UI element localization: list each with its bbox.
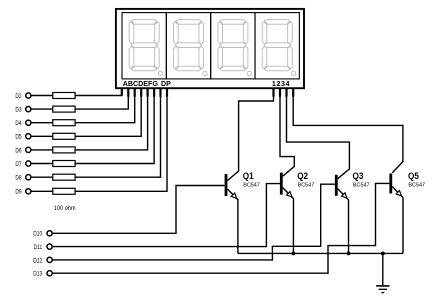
- terminal circle D4: [26, 120, 31, 125]
- svg-text:Q1: Q1: [243, 170, 254, 181]
- wire resistor R3 to display pin C: [75, 88, 135, 123]
- terminal circle D2: [26, 93, 31, 98]
- svg-text:ABCDEFG: ABCDEFG: [123, 79, 158, 88]
- svg-text:D4: D4: [15, 121, 22, 128]
- display label 1234: [272, 79, 291, 88]
- wire D8 to resistor R7: [31, 176, 53, 178]
- terminal circle D13: [47, 271, 52, 276]
- terminal label D3: [15, 107, 22, 114]
- resistor R4 (100 ohm): [53, 133, 75, 139]
- digit cell 1 border: [122, 13, 166, 79]
- svg-text:D7: D7: [15, 161, 21, 168]
- transistor Q5 base bar: [389, 174, 392, 194]
- digit cell 3 border: [211, 13, 255, 79]
- svg-text:D12: D12: [33, 258, 42, 265]
- digit 2 decimal point: [203, 71, 207, 75]
- svg-text:D2: D2: [15, 93, 21, 100]
- terminal circle D12: [47, 257, 52, 262]
- wire display pin 4 to Q5 collector: [293, 88, 403, 173]
- svg-text:D13: D13: [33, 271, 43, 278]
- svg-text:Q2: Q2: [297, 170, 308, 181]
- svg-text:BC547: BC547: [353, 182, 370, 188]
- display pin C: [134, 88, 136, 97]
- terminal circle D3: [26, 107, 31, 112]
- transistor Q1 label: [243, 170, 254, 181]
- svg-text:BC547: BC547: [298, 182, 315, 188]
- svg-text:1234: 1234: [272, 79, 291, 88]
- svg-text:D9: D9: [15, 189, 21, 196]
- terminal circle D10: [47, 231, 52, 236]
- wire D10 to Q1 base: [52, 186, 224, 234]
- display pin B: [127, 88, 129, 97]
- digit 4 seven-segment pattern: [262, 20, 292, 71]
- wire D11 to Q2 base: [52, 184, 280, 247]
- wire resistor R7 to display pin G: [75, 88, 160, 177]
- svg-text:D5: D5: [15, 134, 22, 141]
- terminal label D5: [15, 134, 22, 141]
- ground symbol: [376, 286, 389, 293]
- svg-text:D8: D8: [15, 175, 22, 182]
- terminal circle D6: [26, 147, 31, 152]
- resistor R3 (100 ohm): [53, 120, 75, 126]
- svg-text:D10: D10: [33, 231, 43, 238]
- digit 3 decimal point: [247, 71, 251, 75]
- terminal label D10: [33, 231, 43, 238]
- display pin 3: [285, 88, 287, 97]
- transistor Q1 value label: [243, 182, 260, 188]
- junction Q3 emitter on rail: [347, 252, 351, 256]
- wire resistor R5 to display pin E: [75, 88, 148, 150]
- wire resistor R1 to display pin A: [75, 88, 122, 95]
- wire D4 to resistor R3: [31, 122, 53, 124]
- wire rail to ground symbol: [382, 253, 384, 286]
- wire D3 to resistor R2: [31, 108, 53, 110]
- wire D2 to resistor R1: [31, 95, 53, 97]
- transistor Q1 emitter with arrow: [227, 189, 238, 200]
- svg-text:D6: D6: [15, 148, 22, 155]
- resistor R1 (100 ohm): [53, 93, 75, 99]
- wire resistor R6 to display pin F: [75, 88, 154, 163]
- wire resistor R8 to display pin DP: [75, 88, 167, 191]
- wire display pin 3 to Q3 collector: [287, 88, 350, 179]
- terminal circle D5: [26, 134, 31, 139]
- junction ground stem on rail: [381, 252, 385, 256]
- transistor Q5 emitter with arrow: [392, 187, 403, 198]
- terminal label D8: [15, 175, 22, 182]
- display pin 4: [292, 88, 294, 97]
- wire Q5 emitter to ground rail: [402, 198, 404, 254]
- terminal label D13: [33, 271, 43, 278]
- display pin A: [121, 88, 123, 95]
- terminal label D11: [34, 244, 43, 251]
- svg-text:BC547: BC547: [243, 182, 260, 188]
- junction Q2 emitter on rail: [292, 252, 296, 256]
- svg-text:Q3: Q3: [353, 170, 364, 181]
- wire resistor R4 to display pin D: [75, 88, 141, 136]
- 7-segment display module outline: [116, 9, 304, 88]
- terminal circle D8: [26, 175, 31, 180]
- terminal circle D9: [26, 189, 31, 194]
- transistor Q3 label: [353, 170, 364, 181]
- display label ABCDEFG: [123, 79, 158, 88]
- digit 4 decimal point: [292, 71, 296, 75]
- transistor Q2 base bar: [280, 173, 283, 195]
- terminal label D4: [15, 121, 22, 128]
- svg-text:DP: DP: [161, 79, 171, 88]
- terminal label D9: [15, 189, 21, 196]
- resistor R6 (100 ohm): [53, 161, 75, 167]
- digit 1 decimal point: [159, 71, 163, 75]
- wire Q3 emitter to ground rail: [348, 200, 350, 254]
- svg-text:D11: D11: [34, 244, 43, 251]
- transistor Q3 emitter with arrow: [338, 189, 349, 200]
- terminal label D6: [15, 148, 22, 155]
- display label DP: [161, 79, 171, 88]
- wire D12 to Q3 base: [52, 184, 335, 260]
- wire D7 to resistor R6: [31, 163, 53, 165]
- label 100 ohm: [54, 205, 76, 213]
- digit cell 2 border: [166, 13, 210, 79]
- display pin D: [140, 88, 142, 97]
- transistor Q5 label: [408, 170, 419, 181]
- ground rail wire: [238, 252, 403, 254]
- digit 1 seven-segment pattern: [129, 20, 159, 71]
- terminal circle D7: [26, 161, 31, 166]
- wire Q2 emitter to ground rail: [292, 199, 294, 254]
- display pin 1: [272, 88, 274, 97]
- digit 2 seven-segment pattern: [174, 20, 204, 71]
- svg-text:Q5: Q5: [408, 170, 419, 181]
- resistor R8 (100 ohm): [53, 188, 75, 194]
- svg-text:100 ohm: 100 ohm: [54, 205, 76, 213]
- transistor Q3 value label: [353, 182, 370, 188]
- wire D6 to resistor R5: [31, 149, 53, 151]
- transistor Q2 emitter with arrow: [283, 188, 294, 199]
- resistor R7 (100 ohm): [53, 174, 75, 180]
- wire resistor R2 to display pin B: [75, 88, 128, 109]
- terminal label D12: [33, 258, 42, 265]
- transistor Q1 base bar: [225, 174, 228, 196]
- wire D13 to Q5 base: [52, 183, 389, 273]
- terminal circle D11: [47, 244, 52, 249]
- transistor Q3 base bar: [335, 175, 338, 196]
- svg-text:D3: D3: [15, 107, 22, 114]
- transistor Q5 value label: [408, 182, 425, 188]
- display pin 2: [279, 88, 281, 97]
- resistor R5 (100 ohm): [53, 147, 75, 153]
- digit 3 seven-segment pattern: [218, 20, 248, 71]
- terminal label D7: [15, 161, 21, 168]
- svg-text:BC547: BC547: [408, 182, 425, 188]
- wire D9 to resistor R8: [31, 190, 53, 192]
- display pin DP: [166, 88, 168, 97]
- transistor Q2 value label: [298, 182, 315, 188]
- wire display pin 1 to Q1 collector: [227, 88, 273, 180]
- transistor Q2 label: [297, 170, 308, 181]
- display pin E: [147, 88, 149, 97]
- display pin F: [153, 88, 155, 97]
- wire display pin 2 to Q2 collector: [280, 88, 294, 176]
- wire D5 to resistor R4: [31, 135, 53, 137]
- wire Q1 emitter to ground rail: [237, 200, 239, 254]
- terminal label D2: [15, 93, 21, 100]
- display pin G: [159, 88, 161, 97]
- resistor R2 (100 ohm): [53, 106, 75, 112]
- digit cell 4 border: [255, 13, 299, 79]
